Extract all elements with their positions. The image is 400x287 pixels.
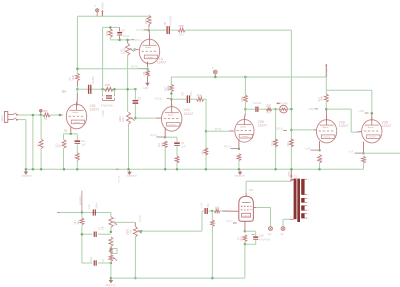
svg-text:470uF 63v: 470uF 63v xyxy=(259,239,271,241)
svg-text:(P1.5): (P1.5) xyxy=(215,128,222,131)
svg-text:470K: 470K xyxy=(197,94,203,97)
svg-text:Anode: Anode xyxy=(146,46,153,49)
svg-text:3V: 3V xyxy=(64,128,67,132)
svg-text:C10: C10 xyxy=(259,235,264,238)
svg-text:C: C xyxy=(94,4,96,8)
svg-text:1uF: 1uF xyxy=(82,143,87,146)
svg-text:Anode: Anode xyxy=(240,125,247,128)
svg-text:500K: 500K xyxy=(122,116,125,122)
svg-text:Cathode: Cathode xyxy=(168,123,175,126)
svg-text:12AX7: 12AX7 xyxy=(184,112,194,116)
svg-text:diaground: diaground xyxy=(127,174,138,177)
svg-text:R12: R12 xyxy=(161,142,164,147)
svg-text:12AX7: 12AX7 xyxy=(258,124,268,128)
svg-text:Cathode: Cathode xyxy=(368,136,375,139)
svg-text:12AX7: 12AX7 xyxy=(339,124,349,128)
svg-text:+150: +150 xyxy=(358,110,364,113)
svg-text:CH1_TR: CH1_TR xyxy=(114,217,116,226)
svg-text:1K: 1K xyxy=(239,157,242,160)
svg-text:CH1_B: CH1_B xyxy=(118,175,120,183)
svg-text:R10: R10 xyxy=(179,33,184,36)
svg-text:820: 820 xyxy=(56,143,59,148)
svg-text:22n: 22n xyxy=(101,225,104,230)
svg-text:(P1.8): (P1.8) xyxy=(155,97,162,100)
svg-text:(P1.4): (P1.4) xyxy=(150,134,157,137)
svg-text:Cathode: Cathode xyxy=(146,56,153,59)
svg-text:470nF: 470nF xyxy=(123,35,130,38)
svg-text:C: C xyxy=(212,66,214,70)
svg-text:Sp+: Sp+ xyxy=(268,234,273,236)
svg-text:100K: 100K xyxy=(120,48,123,54)
svg-text:Anode: Anode xyxy=(368,126,375,129)
svg-text:(P1.3): (P1.3) xyxy=(137,29,144,32)
svg-text:1M: 1M xyxy=(37,144,40,147)
svg-text:(P1.6): (P1.6) xyxy=(276,127,283,130)
svg-text:Sp-: Sp- xyxy=(281,234,285,236)
svg-text:(P1.4): (P1.4) xyxy=(131,66,138,69)
svg-text:Anode: Anode xyxy=(168,114,175,117)
svg-text:Cathode: Cathode xyxy=(73,121,80,124)
svg-text:LOG: LOG xyxy=(130,229,133,234)
svg-text:4n7/400V: 4n7/400V xyxy=(170,16,173,27)
svg-text:12AX7: 12AX7 xyxy=(382,124,392,128)
svg-text:Anode: Anode xyxy=(323,126,330,129)
svg-text:470pF/400v: 470pF/400v xyxy=(101,105,114,108)
svg-text:C14: C14 xyxy=(201,202,204,207)
svg-text:820: 820 xyxy=(320,157,323,162)
svg-text:1K5: 1K5 xyxy=(143,71,146,76)
svg-text:4K7: 4K7 xyxy=(287,141,290,146)
svg-text:100K: 100K xyxy=(322,96,324,102)
svg-text:diaground: diaground xyxy=(105,284,116,287)
svg-text:Cathode: Cathode xyxy=(243,214,250,217)
svg-text:47K: 47K xyxy=(202,150,205,155)
svg-text:C4: C4 xyxy=(121,28,125,32)
svg-text:100nF: 100nF xyxy=(96,202,99,209)
svg-text:R16: R16 xyxy=(266,112,271,114)
svg-text:(P1.1): (P1.1) xyxy=(135,39,142,42)
svg-text:820R: 820R xyxy=(364,157,367,163)
svg-text:Cathode: Cathode xyxy=(323,136,330,139)
svg-text:speaker1: speaker1 xyxy=(79,195,82,205)
svg-text:12AX7: 12AX7 xyxy=(89,108,99,112)
svg-text:470K: 470K xyxy=(106,30,109,36)
svg-text:(P1.1): (P1.1) xyxy=(226,221,232,223)
svg-text:+240V: +240V xyxy=(281,102,288,105)
svg-text:68K: 68K xyxy=(43,110,48,113)
svg-text:ax400v: ax400v xyxy=(92,75,95,84)
svg-text:diaground: diaground xyxy=(22,174,33,177)
svg-text:220K: 220K xyxy=(271,140,274,146)
svg-text:470K: 470K xyxy=(178,25,184,28)
svg-text:+150: +150 xyxy=(308,108,314,111)
svg-text:INPUT: INPUT xyxy=(2,114,4,121)
svg-text:22n: 22n xyxy=(190,91,193,96)
svg-text:CH1_B: CH1_B xyxy=(112,237,114,245)
svg-text:C13: C13 xyxy=(88,204,91,209)
svg-text:36V: 36V xyxy=(62,90,67,94)
svg-text:220K: 220K xyxy=(265,105,271,108)
svg-text:22n: 22n xyxy=(207,203,210,208)
svg-text:+1.6: +1.6 xyxy=(348,150,353,153)
svg-text:GND: GND xyxy=(143,87,149,90)
svg-text:100K: 100K xyxy=(73,75,75,81)
svg-text:Anode: Anode xyxy=(73,111,80,114)
svg-text:1uF: 1uF xyxy=(181,145,186,148)
svg-text:(P1.2): (P1.2) xyxy=(325,68,328,75)
svg-text:TRIM1: TRIM1 xyxy=(123,46,126,54)
svg-text:R18: R18 xyxy=(319,96,321,101)
svg-text:V4: V4 xyxy=(249,188,253,192)
svg-text:+345V: +345V xyxy=(101,2,104,10)
svg-text:R22: R22 xyxy=(242,235,244,240)
svg-text:820: 820 xyxy=(158,142,161,147)
svg-text:Cathode: Cathode xyxy=(241,135,248,138)
svg-text:+345V: +345V xyxy=(102,110,105,117)
svg-text:+1.6V: +1.6V xyxy=(304,147,311,150)
svg-text:100K: 100K xyxy=(241,96,244,102)
svg-text:220K: 220K xyxy=(214,220,216,226)
svg-text:R13: R13 xyxy=(177,157,180,162)
svg-text:(P1.5): (P1.5) xyxy=(140,215,142,221)
svg-text:100K: 100K xyxy=(145,18,148,24)
svg-text:diaground: diaground xyxy=(235,175,246,178)
svg-text:470K: 470K xyxy=(105,84,111,87)
svg-text:+345V: +345V xyxy=(289,171,291,178)
svg-text:C11 22n: C11 22n xyxy=(253,102,263,105)
svg-text:12AX7: 12AX7 xyxy=(157,61,167,65)
svg-text:56K: 56K xyxy=(74,220,77,225)
svg-text:+150V: +150V xyxy=(165,89,172,92)
svg-text:1K5: 1K5 xyxy=(215,207,220,209)
svg-text:(P1.7): (P1.7) xyxy=(224,146,231,149)
svg-text:22nF: 22nF xyxy=(91,256,93,262)
